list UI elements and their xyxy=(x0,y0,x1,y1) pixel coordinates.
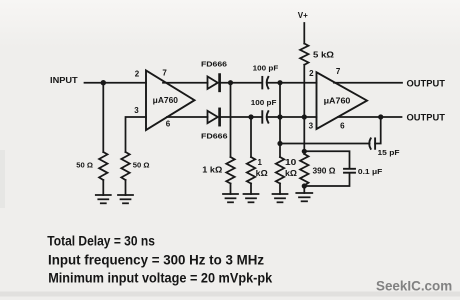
node: pin3 rail at x=304 xyxy=(302,114,307,119)
resistor 390 ohm xyxy=(300,154,308,186)
svg-text:INPUT: INPUT xyxy=(50,76,78,85)
svg-text:0.1 μF: 0.1 μF xyxy=(358,167,383,176)
ground (1 kohm first) xyxy=(223,194,238,202)
ground (10 kohm) xyxy=(273,194,288,202)
svg-text:kΩ: kΩ xyxy=(256,169,269,178)
diode D1 FD666 (top) xyxy=(208,75,220,91)
node: D2 wire / 1k junction xyxy=(248,114,253,119)
svg-text:μA760: μA760 xyxy=(324,97,351,106)
svg-text:μA760: μA760 xyxy=(153,96,179,105)
wire: 100pF to op-amp U2 pin 2 xyxy=(268,82,316,84)
wire: resistor to ground xyxy=(125,180,127,195)
wire: D2 cathode to second 100pF cap xyxy=(221,116,262,118)
svg-text:Total Delay = 30 ns: Total Delay = 30 ns xyxy=(47,233,155,248)
wire: 15 pF up to output node xyxy=(375,117,381,144)
wire: top rail to 0.1uF xyxy=(304,151,349,168)
ground (second 50 ohm) xyxy=(118,195,133,203)
capacitor 100 pF (bottom) xyxy=(262,111,268,123)
wire: resistor to ground xyxy=(230,184,232,195)
svg-text:50 Ω: 50 Ω xyxy=(133,160,150,169)
svg-text:kΩ: kΩ xyxy=(285,169,298,178)
svg-text:390 Ω: 390 Ω xyxy=(313,167,337,176)
wire: 5 kohm down across pin2 rail to pin3 node and 390 ohm xyxy=(303,65,305,154)
wire: INPUT to op-amp U1 pin 2 xyxy=(85,82,147,84)
wire: U2 pin 7 to OUTPUT (top) xyxy=(334,82,402,84)
svg-text:100 pF: 100 pF xyxy=(251,98,277,107)
svg-text:FD666: FD666 xyxy=(201,131,228,140)
svg-text:10: 10 xyxy=(285,158,297,167)
node: output-6 junction xyxy=(378,114,383,119)
svg-text:OUTPUT: OUTPUT xyxy=(407,78,446,88)
wire: second 100pF to op-amp U2 pin 3 xyxy=(268,116,316,118)
svg-text:V+: V+ xyxy=(298,11,308,20)
wire: U1 pin 6 output to diode D2 xyxy=(167,116,208,118)
svg-text:3: 3 xyxy=(134,106,139,115)
svg-text:2: 2 xyxy=(135,70,140,79)
node: top cap / pin2 junction xyxy=(277,80,282,85)
svg-text:7: 7 xyxy=(162,69,167,78)
node: 15pF branch xyxy=(277,141,282,146)
capacitor 100 pF (top) xyxy=(262,77,268,89)
capacitor 15 pF xyxy=(369,138,375,148)
resistor 50 ohm (input, left) xyxy=(99,152,107,180)
ground (left 50 ohm) xyxy=(96,195,111,203)
svg-text:FD666: FD666 xyxy=(201,59,227,68)
svg-text:5 kΩ: 5 kΩ xyxy=(313,51,335,60)
svg-text:Minimum input voltage = 20 mVp: Minimum input voltage = 20 mVpk-pk xyxy=(48,271,272,286)
resistor 10 kohm xyxy=(276,157,284,184)
op-amp U2 triangle xyxy=(317,72,368,129)
svg-text:1: 1 xyxy=(258,158,263,167)
wire: input node down to 50 ohm resistor xyxy=(102,83,104,152)
svg-text:6: 6 xyxy=(340,122,345,131)
svg-text:2: 2 xyxy=(309,69,314,78)
ground (1 kohm second) xyxy=(244,194,259,202)
wire: 0.1uF bottom to 390 ohm bottom rail xyxy=(304,173,349,186)
node: D1 cathode junction xyxy=(228,80,233,85)
node: 0.1uF top rail branch xyxy=(302,149,307,154)
op-amp U1 triangle xyxy=(146,71,195,131)
wire: pin2 node vertical down through pin3 node to 10 kohm xyxy=(279,83,281,157)
node: pin3 rail at x=280 xyxy=(277,114,282,119)
svg-text:1 kΩ: 1 kΩ xyxy=(202,166,223,175)
wire: 15 pF branch horizontal xyxy=(280,143,370,145)
ground (390 ohm) xyxy=(296,193,312,201)
svg-text:6: 6 xyxy=(166,120,171,129)
wire: U2 pin 6 to OUTPUT (bottom) xyxy=(338,116,402,118)
capacitor 0.1 uF xyxy=(344,169,355,173)
svg-text:50 Ω: 50 Ω xyxy=(76,160,93,169)
wire: node down to second 1 kohm resistor xyxy=(250,117,252,157)
wire: op-amp U1 pin 3 to left xyxy=(126,117,147,152)
node: 0.1uF bottom rail branch xyxy=(302,183,307,188)
svg-text:OUTPUT: OUTPUT xyxy=(407,112,446,122)
resistor 1 kohm (second) xyxy=(247,157,255,184)
resistor 50 ohm (second) xyxy=(121,152,129,180)
wire: D1 cathode to 100pF cap xyxy=(221,82,262,84)
wire: node down to 1 kohm resistor (crosses lower wire) xyxy=(230,83,232,157)
wire: resistor to ground xyxy=(102,180,104,195)
svg-text:Input frequency = 300 Hz to 3: Input frequency = 300 Hz to 3 MHz xyxy=(48,253,264,268)
svg-text:7: 7 xyxy=(336,67,341,76)
node: input junction xyxy=(101,80,106,85)
svg-text:SeekIC.com: SeekIC.com xyxy=(376,279,452,294)
wire: U1 pin 7 output to diode D1 xyxy=(163,82,208,84)
svg-text:3: 3 xyxy=(309,122,314,131)
svg-text:100 pF: 100 pF xyxy=(253,63,279,72)
wire: resistor to ground xyxy=(279,184,281,195)
diode D2 FD666 (bottom) xyxy=(208,109,220,125)
V+ supply lead xyxy=(303,23,305,44)
resistor 5 kohm xyxy=(300,44,308,65)
wire: resistor to ground xyxy=(250,184,252,195)
svg-text:15 pF: 15 pF xyxy=(378,148,400,157)
wire: 390 ohm to ground xyxy=(303,186,305,194)
resistor 1 kohm (first) xyxy=(226,157,234,184)
